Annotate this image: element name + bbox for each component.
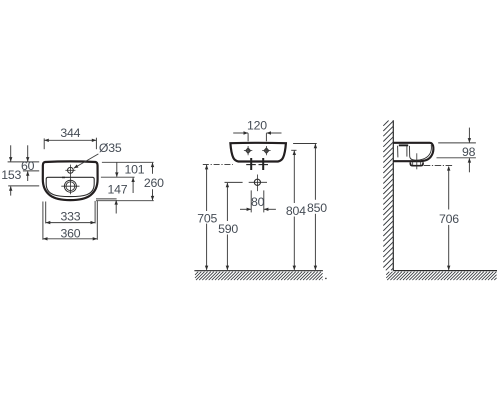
svg-text:80: 80 [251,195,265,209]
svg-text:706: 706 [439,212,459,226]
svg-text:147: 147 [107,183,127,197]
svg-text:153: 153 [1,168,21,182]
svg-text:120: 120 [247,118,267,132]
svg-text:98: 98 [462,145,476,159]
svg-text:850: 850 [307,201,327,215]
svg-text:705: 705 [197,211,217,225]
svg-text:260: 260 [144,176,164,190]
svg-text:60: 60 [21,159,35,173]
svg-text:804: 804 [286,204,306,218]
svg-text:Ø35: Ø35 [99,141,122,155]
svg-text:590: 590 [218,222,238,236]
svg-text:101: 101 [124,162,144,176]
svg-text:333: 333 [61,209,81,223]
svg-text:344: 344 [60,126,80,140]
svg-text:360: 360 [60,226,80,240]
